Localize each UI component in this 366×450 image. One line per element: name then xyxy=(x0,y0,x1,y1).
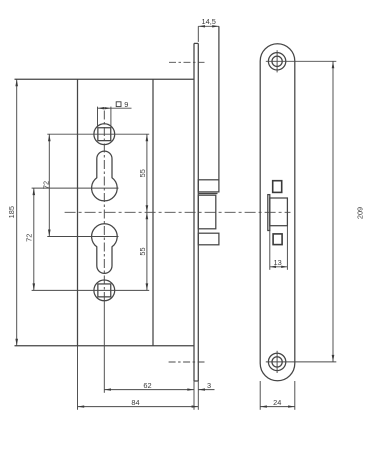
svg-text:55: 55 xyxy=(138,247,147,255)
svg-text:13: 13 xyxy=(273,258,281,267)
svg-text:3: 3 xyxy=(207,381,211,390)
svg-text:72: 72 xyxy=(42,181,51,189)
svg-text:55: 55 xyxy=(138,169,147,177)
svg-text:84: 84 xyxy=(131,398,139,407)
svg-text:9: 9 xyxy=(124,100,128,109)
svg-text:14,5: 14,5 xyxy=(202,17,216,26)
svg-text:24: 24 xyxy=(273,398,281,407)
svg-text:72: 72 xyxy=(24,234,33,242)
svg-text:62: 62 xyxy=(143,381,151,390)
svg-text:209: 209 xyxy=(355,207,364,219)
svg-text:185: 185 xyxy=(7,206,16,218)
